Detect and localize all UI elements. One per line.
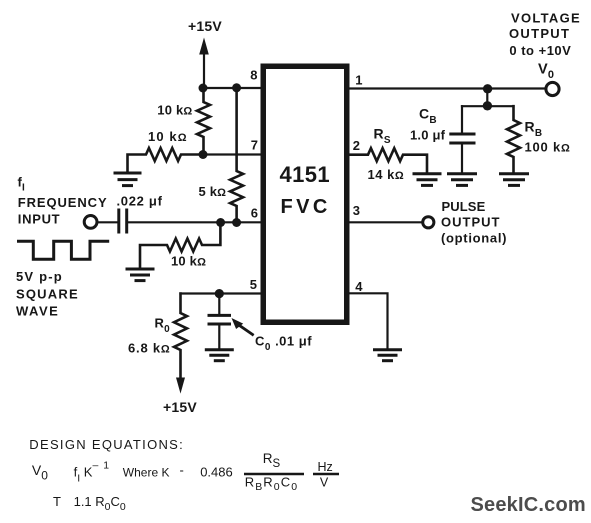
wire pin 6 [128, 221, 261, 223]
svg-text:V0: V0 [32, 462, 48, 482]
resistor R 10k (vertical, pin 8 to pin 7 net) [197, 88, 210, 155]
svg-text:5V p-p: 5V p-p [16, 269, 63, 284]
input terminal circle [84, 216, 97, 229]
svg-text:7: 7 [251, 138, 258, 153]
square wave input symbol [19, 241, 108, 259]
svg-text:(optional): (optional) [441, 231, 507, 246]
svg-text:RBR0C0: RBR0C0 [245, 474, 299, 493]
svg-text:+15V: +15V [188, 18, 222, 34]
svg-text:1.1 R0C0: 1.1 R0C0 [74, 494, 126, 513]
resistor 10k (horizontal, pin 7 to ground) [128, 148, 204, 173]
svg-text:6: 6 [251, 206, 258, 221]
ground (under CB) [449, 174, 476, 186]
wire pin 7 [203, 153, 262, 155]
svg-text:10 kΩ: 10 kΩ [148, 129, 188, 144]
svg-text:8: 8 [250, 68, 257, 83]
ground (left of pin 7 divider) [115, 173, 140, 186]
svg-text:.022 μf: .022 μf [117, 193, 163, 208]
wire pin 4 to ground [350, 293, 388, 348]
svg-text:0 to +10V: 0 to +10V [509, 43, 571, 58]
equation T = 1.1 R0 C0 [53, 494, 126, 513]
ground (under RS) [414, 174, 440, 186]
wire pin 3 [350, 221, 423, 223]
node G (output junction on pin 1 net) [483, 84, 492, 93]
output terminal V0 [546, 82, 559, 95]
resistor R0 6.8k (pin 5 net to +15V) [174, 294, 187, 379]
ground (under C0) [206, 350, 232, 361]
node B (5k branch junction on pin 8 net) [232, 83, 241, 92]
node C (pin 7 junction) [199, 150, 208, 159]
svg-text:100 kΩ: 100 kΩ [525, 140, 571, 155]
pulse output terminal [423, 217, 434, 228]
svg-text:-: - [180, 462, 184, 477]
svg-text:OUTPUT: OUTPUT [509, 26, 570, 41]
svg-text:DESIGN EQUATIONS:: DESIGN EQUATIONS: [29, 437, 184, 452]
svg-text:CB: CB [419, 105, 437, 126]
node H (CB / RB tee) [483, 101, 492, 110]
svg-text:FREQUENCY: FREQUENCY [18, 195, 108, 210]
svg-text:10 kΩ: 10 kΩ [157, 102, 192, 117]
capacitor C0 .01uf [209, 294, 230, 349]
wire pin 8 net [203, 87, 262, 89]
svg-text:T: T [53, 494, 61, 509]
node A (supply / pin 8 junction) [199, 84, 208, 93]
capacitor .022uf (input coupling) [119, 210, 127, 232]
svg-text:RB: RB [525, 118, 543, 139]
svg-text:INPUT: INPUT [18, 211, 61, 226]
svg-text:Hz: Hz [318, 460, 333, 474]
svg-text:FVC: FVC [281, 196, 331, 218]
ground (under RB) [501, 174, 528, 186]
svg-text:Where K: Where K [123, 466, 170, 480]
wire input terminal to coupling capacitor [98, 221, 117, 223]
svg-text:+15V: +15V [163, 399, 197, 415]
svg-text:1: 1 [355, 73, 362, 88]
+15V supply arrow (bottom) [176, 378, 185, 394]
node E (5k junction on pin 6 net) [232, 218, 241, 227]
wire node G down to tee [486, 89, 488, 107]
svg-text:SeekIC.com: SeekIC.com [471, 494, 586, 516]
svg-text:4151: 4151 [280, 162, 331, 187]
svg-text:RS: RS [374, 125, 391, 146]
+15V supply arrow (top) [199, 38, 209, 89]
svg-text:5 kΩ: 5 kΩ [199, 184, 227, 199]
svg-text:4: 4 [355, 279, 363, 294]
resistor RB 100k (pin 1 net to ground) [507, 106, 520, 172]
svg-text:2: 2 [353, 138, 360, 153]
equation V0 = f K^-1 ... [32, 451, 339, 493]
arrow pointing at C0 from label [232, 318, 253, 335]
node F (C0 junction on pin 5 net) [215, 289, 224, 298]
svg-text:0.486: 0.486 [200, 465, 233, 480]
svg-text:C0 .01 μf: C0 .01 μf [255, 333, 312, 353]
svg-text:WAVE: WAVE [16, 303, 59, 318]
svg-text:5: 5 [250, 277, 257, 292]
svg-text:PULSE: PULSE [442, 199, 486, 214]
wire tee horizontal [462, 105, 514, 107]
svg-text:3: 3 [353, 203, 360, 218]
svg-text:V: V [320, 476, 329, 490]
capacitor CB 1.0uf [451, 106, 474, 172]
svg-text:RS: RS [263, 451, 281, 470]
svg-text:R0: R0 [155, 316, 171, 336]
wire pin 1 [350, 87, 547, 89]
ground (under pin 6 bias resistor) [127, 269, 153, 281]
svg-text:10 kΩ: 10 kΩ [171, 254, 206, 269]
svg-text:14 kΩ: 14 kΩ [368, 167, 405, 182]
ground (pin 4) [375, 350, 401, 361]
resistor 10k (pin 6 net to ground) [140, 222, 220, 268]
svg-text:SQUARE: SQUARE [16, 287, 79, 302]
svg-text:1.0 μf: 1.0 μf [410, 127, 446, 142]
svg-text:6.8 kΩ: 6.8 kΩ [128, 341, 171, 356]
svg-text:OUTPUT: OUTPUT [441, 214, 500, 229]
wire pin 5 [181, 292, 262, 294]
svg-text:VOLTAGE: VOLTAGE [511, 11, 581, 26]
resistor RS 14k (pin 2 to ground) [350, 148, 428, 172]
svg-text:V0: V0 [538, 61, 554, 81]
resistor 5k (pin 8 net down to pin 6 net) [230, 88, 243, 222]
IC U1 4151 FVC body [263, 66, 347, 322]
svg-text:fI K– 1: fI K– 1 [74, 460, 110, 485]
node D (input junction on pin 6 net) [216, 218, 225, 227]
svg-text:fI: fI [18, 174, 26, 193]
